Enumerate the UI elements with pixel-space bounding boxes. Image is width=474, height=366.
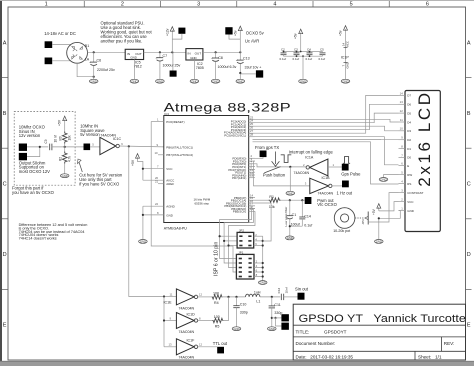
+5v arrow decoupling bank bbox=[300, 33, 302, 52]
pot wiper arrow bbox=[355, 217, 365, 219]
decoupling top bus bbox=[284, 51, 323, 53]
ground sym decoupling bbox=[299, 79, 308, 83]
svg-text:+5V: +5V bbox=[58, 119, 62, 126]
wire PC1 to LCD D5 bbox=[255, 113, 399, 123]
wire pad to +12v stem bbox=[172, 34, 182, 39]
svg-text:+12v: +12v bbox=[165, 28, 169, 36]
svg-text:A: A bbox=[467, 40, 471, 46]
svg-text:IN: IN bbox=[188, 51, 191, 55]
junction pushbutton gnd branch bbox=[289, 166, 291, 168]
svg-text:REV:: REV: bbox=[444, 341, 455, 346]
svg-text:PB5(SCK): PB5(SCK) bbox=[233, 210, 247, 214]
PB5 pin 19 bbox=[249, 210, 255, 212]
svg-text:you have an 5v OCXO: you have an 5v OCXO bbox=[12, 190, 55, 195]
wire AC1 to bridge bbox=[52, 45, 70, 46]
wire JP2 left pin3 bbox=[224, 240, 237, 242]
svg-text:14: 14 bbox=[400, 91, 404, 95]
svg-text:3: 3 bbox=[197, 2, 200, 8]
capacitor C8 1000uf 6.3v bbox=[215, 52, 217, 58]
connector pad square wave in bbox=[84, 144, 91, 151]
title block divider under big title bbox=[293, 324, 465, 326]
LCD module box bbox=[405, 91, 440, 232]
+5v arrow at pot bbox=[378, 207, 380, 211]
svg-text:13: 13 bbox=[400, 100, 404, 104]
svg-text:6: 6 bbox=[426, 2, 429, 8]
pin 7 VCC wire bbox=[143, 168, 164, 170]
window chrome bottom scrollbar bbox=[0, 361, 474, 366]
wire IC1D input bbox=[164, 320, 176, 322]
svg-text:10: 10 bbox=[155, 151, 159, 155]
junction C14 bbox=[301, 199, 303, 201]
svg-text:13: 13 bbox=[250, 174, 254, 178]
frame row tick B/C left bbox=[2, 147, 8, 149]
connector pad 1 Hz out bbox=[342, 181, 349, 188]
wire pushbutton to gnd bbox=[289, 167, 291, 191]
inductor L1 1uH bbox=[246, 294, 260, 297]
frame column tick 1/2 bbox=[83, 1, 85, 7]
svg-text:+5V: +5V bbox=[131, 159, 135, 166]
frame row tick D/E left bbox=[2, 288, 8, 290]
wire bridge plus to rail bbox=[88, 51, 126, 53]
connector pad Uc AVR bbox=[225, 27, 232, 34]
svg-text:PB6(XTAL1/TOSC1): PB6(XTAL1/TOSC1) bbox=[166, 146, 193, 150]
wire aux to LCD D2 bbox=[253, 139, 399, 141]
svg-text:74AC04N: 74AC04N bbox=[179, 356, 195, 360]
PB3 pin 17 bbox=[249, 205, 255, 207]
frame column tick 4/5 bbox=[312, 1, 314, 7]
capacitor C1 100uf bbox=[289, 200, 291, 216]
svg-text:74AC04N: 74AC04N bbox=[294, 171, 310, 175]
capacitor C12 10nf series bbox=[281, 294, 283, 300]
svg-text:D: D bbox=[3, 252, 7, 258]
potentiometer 10-20k bbox=[334, 208, 355, 229]
PC1 pin 24 bbox=[249, 122, 255, 124]
svg-text:RS: RS bbox=[407, 182, 411, 186]
LCD pin 14 stub bbox=[399, 94, 406, 96]
wire LCD GND down bbox=[379, 211, 401, 240]
junction C6 bottom bbox=[93, 76, 95, 78]
svg-text:D2: D2 bbox=[407, 138, 411, 142]
connector pad +12v bbox=[178, 28, 185, 34]
svg-text:GND: GND bbox=[287, 191, 293, 195]
svg-text:GND: GND bbox=[300, 79, 306, 83]
connector pad Sin out bbox=[298, 293, 305, 300]
svg-text:Document Number:: Document Number: bbox=[296, 341, 336, 346]
pin 21 AREF stub bbox=[158, 183, 164, 185]
svg-text:2200uf 25v: 2200uf 25v bbox=[97, 68, 115, 72]
junction C8 bbox=[215, 51, 217, 53]
wire IC1C out to xtal1 bbox=[119, 145, 163, 148]
connector pad AC input 2 bbox=[45, 58, 53, 65]
svg-text:IC1E: IC1E bbox=[164, 301, 173, 305]
wire decoupling gnd bbox=[302, 56, 304, 79]
connector pad from gps tx bbox=[260, 151, 267, 158]
wire PC0 to LCD D4 bbox=[255, 119, 399, 122]
capacitor C4 0.1uf bbox=[307, 53, 313, 55]
falling edge glyph bbox=[281, 155, 292, 163]
capacitor C13 33uf 10v bbox=[239, 52, 241, 60]
junction C10 bbox=[235, 296, 237, 298]
svg-text:E: E bbox=[3, 323, 7, 329]
junction C7 bbox=[159, 51, 161, 53]
svg-text:C10: C10 bbox=[240, 303, 247, 307]
push button bbox=[264, 167, 280, 173]
svg-text:10k: 10k bbox=[269, 205, 275, 209]
svg-text:10-20k pot: 10-20k pot bbox=[333, 229, 350, 233]
ISP header JP1 bbox=[236, 254, 254, 279]
svg-text:11: 11 bbox=[400, 118, 403, 122]
svg-text:GND: GND bbox=[380, 177, 386, 181]
svg-text:12: 12 bbox=[199, 343, 203, 347]
svg-text:100: 100 bbox=[214, 315, 220, 319]
ground sym C13 bbox=[236, 79, 245, 83]
svg-text:R4: R4 bbox=[214, 301, 219, 305]
svg-text:C8: C8 bbox=[218, 56, 223, 60]
svg-text:4.7k: 4.7k bbox=[67, 156, 71, 162]
junction IC1C out bbox=[128, 145, 130, 147]
ground sym C7 bbox=[156, 79, 165, 83]
svg-text:+5v: +5v bbox=[294, 33, 298, 39]
wire PC4 to LCD D7 bbox=[255, 95, 399, 133]
title block Sheet divider bbox=[414, 351, 416, 360]
svg-text:E: E bbox=[407, 164, 409, 168]
wire bridge minus down bbox=[77, 63, 94, 76]
svg-text:GND: GND bbox=[342, 79, 348, 83]
connector pad AC input 1 bbox=[45, 41, 53, 48]
svg-text:1000uf 25v: 1000uf 25v bbox=[163, 64, 181, 68]
junction +5v bbox=[239, 51, 241, 53]
wire PB2 to JP right rail bbox=[255, 203, 271, 241]
wire IC1B out to 1hz pad bbox=[332, 185, 342, 187]
svg-text:C14: C14 bbox=[304, 215, 311, 219]
wire LCD VCC to +5v bbox=[379, 202, 399, 211]
svg-text:65536 step: 65536 step bbox=[195, 202, 210, 206]
wire JP2 left pin1 bbox=[220, 235, 238, 237]
svg-text:C11: C11 bbox=[274, 303, 280, 307]
PD5 pin 11 bbox=[249, 171, 255, 173]
pin 8 GND wire bbox=[143, 214, 164, 216]
wire IC1E out to R4 bbox=[198, 296, 212, 298]
ISP right rail bbox=[262, 236, 264, 280]
wire PB5 route to ISP bbox=[229, 211, 256, 267]
svg-text:GND: GND bbox=[213, 79, 219, 83]
svg-text:R1: R1 bbox=[269, 195, 274, 199]
resistor R4 100 bbox=[212, 295, 223, 299]
ground sym pushbutton bbox=[286, 191, 295, 195]
wire IC1D out to R5 bbox=[198, 320, 213, 322]
svg-text:IC1A: IC1A bbox=[305, 156, 314, 160]
junction pot gnd bbox=[378, 217, 380, 219]
wire 7805 out to +5v bbox=[203, 51, 240, 53]
frame column tick 3/4 bbox=[236, 1, 238, 7]
junction JP2 pin3 bbox=[223, 240, 225, 242]
svg-text:28: 28 bbox=[250, 133, 254, 137]
svg-text:D1: D1 bbox=[407, 147, 411, 151]
LCD pin 2 stub bbox=[399, 201, 406, 203]
svg-text:E: E bbox=[467, 323, 471, 329]
wire C12 to sin out pad bbox=[284, 296, 298, 298]
svg-text:L1: L1 bbox=[256, 299, 260, 303]
frame column tick 5/6 bbox=[388, 1, 390, 7]
svg-text:12: 12 bbox=[400, 109, 404, 113]
wire pad to IC1C bbox=[90, 146, 100, 148]
frame row tick B/C right bbox=[466, 147, 472, 149]
wire OCXO pad1 to C9 bbox=[27, 146, 48, 148]
PD1 pin 3 bbox=[249, 160, 255, 162]
svg-text:B1: B1 bbox=[85, 44, 89, 48]
svg-text:VCC: VCC bbox=[346, 41, 350, 47]
svg-text:33uf 10v +: 33uf 10v + bbox=[245, 65, 262, 69]
wire PC5 to LCD E bbox=[255, 137, 399, 165]
junction JP2 pin1 bbox=[219, 235, 221, 237]
svg-text:2: 2 bbox=[121, 2, 124, 8]
svg-text:4: 4 bbox=[273, 2, 276, 8]
svg-text:PD7(AIN1): PD7(AIN1) bbox=[232, 176, 246, 180]
wire R4 to node bbox=[221, 296, 245, 298]
svg-text:14-18v AC or DC: 14-18v AC or DC bbox=[44, 31, 76, 36]
wire PB3 route to ISP bbox=[220, 206, 255, 259]
svg-text:21: 21 bbox=[155, 180, 159, 184]
svg-text:C: C bbox=[467, 182, 471, 188]
ground sym C10 bbox=[232, 327, 241, 331]
connector pad OCXO out 2 bbox=[19, 153, 27, 160]
wire AC2 to bridge bbox=[52, 59, 70, 62]
svg-text:GND: GND bbox=[91, 79, 97, 83]
svg-text:C12: C12 bbox=[277, 287, 281, 293]
svg-text:GND: GND bbox=[190, 56, 196, 60]
svg-text:10: 10 bbox=[400, 127, 404, 131]
svg-text:D6: D6 bbox=[407, 103, 411, 107]
LCD pin 1 stub bbox=[399, 210, 406, 212]
svg-text:C5: C5 bbox=[320, 47, 324, 51]
window chrome left strip bbox=[0, 0, 2, 366]
wire to aux pad 1 bbox=[272, 317, 282, 319]
svg-text:GND: GND bbox=[233, 327, 239, 331]
junction C13 bottom bbox=[239, 72, 241, 74]
svg-text:GPSDO YT Yannick Turcotte: GPSDO YT Yannick Turcotte bbox=[298, 311, 466, 324]
svg-text:TITLE:: TITLE: bbox=[296, 329, 310, 334]
svg-text:PB7(XTAL2/TOSC2): PB7(XTAL2/TOSC2) bbox=[166, 153, 193, 157]
pin 10 XTAL2 stub bbox=[158, 154, 164, 156]
connector pad aux 2 bbox=[281, 323, 289, 330]
svg-text:12v version: 12v version bbox=[19, 133, 41, 138]
connector pad aux 1 bbox=[281, 314, 289, 321]
ground sym pot bbox=[375, 240, 384, 244]
connector pad OCXO out 1 bbox=[19, 144, 27, 151]
+12v supply arrow bbox=[171, 30, 173, 52]
JP1 right stubs to gnd rail bbox=[254, 262, 263, 264]
svg-text:1uH: 1uH bbox=[254, 291, 261, 295]
junction C6 top bbox=[93, 51, 95, 53]
svg-text:Push button: Push button bbox=[263, 173, 286, 178]
svg-text:74AC04N: 74AC04N bbox=[179, 330, 195, 334]
PD2 pin 4 bbox=[249, 163, 255, 165]
svg-text:Vfc OCXO: Vfc OCXO bbox=[317, 202, 337, 207]
svg-text:330p: 330p bbox=[274, 311, 282, 315]
LCD pin 7 stub bbox=[399, 156, 406, 158]
wire to aux pad 2 bbox=[276, 318, 282, 326]
wire pad to C13 bottom bbox=[240, 73, 256, 75]
pin 20 AVCC wire bbox=[143, 179, 164, 181]
wire LCD CONTRAST to pot wiper bbox=[370, 193, 399, 222]
LCD pin 4 stub bbox=[399, 183, 406, 185]
ground sym filter bbox=[286, 236, 295, 240]
wire reset down to ISP bbox=[151, 122, 233, 247]
svg-text:GND: GND bbox=[140, 239, 146, 243]
svg-text:AGND: AGND bbox=[166, 205, 175, 209]
resistor R2 4.7k bbox=[62, 152, 67, 164]
LCD pin 11 stub bbox=[399, 121, 406, 123]
resistor R5 100 bbox=[213, 318, 224, 322]
svg-text:another psu if you like.: another psu if you like. bbox=[101, 38, 143, 43]
svg-text:Atmega 88,328P: Atmega 88,328P bbox=[164, 101, 292, 114]
wire lower pad to rail bbox=[172, 52, 174, 70]
JP2 right stubs bbox=[254, 235, 263, 237]
junction IC1D bbox=[163, 319, 165, 321]
wire L1 to C12 bbox=[260, 296, 280, 298]
svg-text:2x16 LCD: 2x16 LCD bbox=[415, 90, 434, 186]
svg-text:12: 12 bbox=[199, 293, 203, 297]
wire gps pulse pad to IC1A input bbox=[328, 166, 342, 168]
decoupling bottom bus bbox=[284, 55, 323, 57]
LCD pin 10 stub bbox=[399, 130, 406, 132]
inverter IC1D 74AC04N bbox=[176, 313, 194, 329]
PC2 pin 25 bbox=[249, 125, 255, 127]
bridge rectifier B1 bbox=[67, 42, 88, 63]
frame row tick C/D right bbox=[466, 218, 472, 220]
wire PB1 to R1 bbox=[255, 199, 269, 201]
voltage regulator IC2 7805 bbox=[186, 49, 203, 60]
PD4 pin 6 bbox=[249, 168, 255, 170]
svg-text:JP3: JP3 bbox=[361, 219, 365, 225]
svg-text:Uc AVR: Uc AVR bbox=[245, 39, 259, 44]
capacitor C9 10nf series bbox=[50, 144, 52, 151]
svg-text:C7: C7 bbox=[163, 54, 168, 58]
svg-text:1000uf 6.3v: 1000uf 6.3v bbox=[218, 65, 237, 69]
IC1P power pins bbox=[345, 29, 347, 79]
svg-text:IC1B: IC1B bbox=[322, 176, 331, 180]
wire pad to +5v stem bbox=[229, 35, 240, 40]
svg-text:GND: GND bbox=[191, 79, 197, 83]
svg-text:if you have 5V OCXO: if you have 5V OCXO bbox=[79, 181, 120, 186]
PB0 pin 14 bbox=[249, 197, 255, 199]
wire 7812 out to 7805 bbox=[144, 51, 186, 53]
svg-text:10nf: 10nf bbox=[284, 287, 288, 293]
svg-text:Sheet: 1/1: Sheet: 1/1 bbox=[418, 354, 442, 359]
junction dots decoupling bbox=[283, 51, 285, 53]
PB2 pin 16 bbox=[249, 202, 255, 204]
wire LCD RW to gnd hook bbox=[384, 175, 399, 178]
wire 7805 gnd bbox=[193, 60, 195, 79]
junction pad2 bbox=[39, 146, 41, 148]
svg-text:11: 11 bbox=[170, 292, 173, 296]
svg-text:10k: 10k bbox=[67, 135, 71, 141]
wire 7812 gnd bbox=[133, 60, 135, 80]
wire PD2 to IC1A input bbox=[255, 164, 306, 167]
junction C11 bbox=[271, 296, 273, 298]
wire gps tx pad to PD0 bbox=[255, 157, 263, 158]
svg-text:1: 1 bbox=[45, 2, 48, 8]
LCD pin 6 stub bbox=[399, 165, 406, 167]
inverter IC1A 74AC04N pointing left bbox=[310, 159, 328, 176]
capacitor C14 0.1uf bbox=[301, 200, 303, 217]
svg-text:GND: GND bbox=[287, 236, 293, 240]
svg-text:13: 13 bbox=[169, 343, 173, 347]
svg-text:GND: GND bbox=[407, 209, 414, 213]
svg-text:0.1uf: 0.1uf bbox=[280, 57, 287, 61]
+5v trunk VCC/AVCC bbox=[138, 157, 143, 180]
wire aux to LCD RS bbox=[253, 142, 399, 184]
svg-text:ATMEGA8-PU: ATMEGA8-PU bbox=[164, 226, 188, 230]
frame column tick 2/3 bbox=[160, 1, 162, 7]
svg-text:GND: GND bbox=[376, 239, 382, 243]
svg-text:TTL out: TTL out bbox=[213, 341, 228, 346]
ground sym IC3 bbox=[139, 240, 148, 244]
ground sym C6 bbox=[89, 79, 98, 83]
svg-text:VCC: VCC bbox=[407, 200, 414, 204]
svg-text:OUT: OUT bbox=[195, 51, 202, 55]
svg-text:IC3: IC3 bbox=[164, 112, 169, 116]
svg-text:C6: C6 bbox=[97, 59, 102, 63]
svg-text:GND: GND bbox=[130, 56, 136, 60]
svg-text:D0: D0 bbox=[407, 156, 411, 160]
junction JP1 gnd pins bbox=[262, 262, 264, 264]
PD3 pin 5 bbox=[249, 166, 255, 168]
svg-text:IC1D: IC1D bbox=[187, 312, 196, 316]
junction +12v rail bbox=[171, 51, 173, 53]
microcontroller IC3 box bbox=[164, 116, 249, 223]
svg-text:+5v: +5v bbox=[339, 30, 343, 36]
junction IC1E bbox=[163, 295, 165, 297]
wire JP2 left pin5 bbox=[229, 245, 238, 247]
svg-text:GPSDOYT: GPSDOYT bbox=[324, 329, 347, 334]
wire trunk junction to IC1E input bbox=[164, 296, 176, 298]
svg-text:+5V: +5V bbox=[372, 208, 376, 215]
svg-text:C1: C1 bbox=[292, 213, 297, 217]
svg-text:RW: RW bbox=[407, 173, 412, 177]
ground sym 7812 bbox=[130, 79, 139, 83]
svg-text:C: C bbox=[3, 182, 7, 188]
connector pad 12v out lower bbox=[170, 71, 177, 77]
capacitor C5 0.1uf bbox=[320, 53, 326, 55]
capacitor C2 0.1uf bbox=[281, 53, 287, 55]
title block divider above date row bbox=[293, 350, 465, 352]
svg-text:GND: GND bbox=[157, 79, 163, 83]
PD6 pin 12 bbox=[249, 174, 255, 176]
svg-text:C9: C9 bbox=[44, 139, 48, 143]
ground sym JP1 bbox=[258, 281, 267, 285]
inverter bus down bbox=[163, 297, 165, 347]
inverter IC1E 74AC04N bbox=[176, 289, 194, 305]
svg-text:5v Version: 5v Version bbox=[80, 132, 100, 137]
svg-text:5: 5 bbox=[350, 2, 353, 8]
ground sym 7805 bbox=[190, 79, 199, 83]
junction gnd trunk bbox=[142, 214, 144, 216]
svg-text:D: D bbox=[467, 252, 471, 258]
LCD pin 9 stub bbox=[399, 139, 406, 141]
svg-text:IC1C: IC1C bbox=[113, 137, 122, 141]
junction reset JP2 bbox=[232, 245, 234, 247]
capacitor C3 0.1uf bbox=[294, 53, 300, 55]
pin 22 AGND wire bbox=[143, 205, 164, 207]
LCD pin 13 stub bbox=[399, 103, 406, 105]
LCD pin 3 stub bbox=[399, 192, 406, 194]
svg-text:B: B bbox=[3, 111, 7, 117]
wire reset to JP1 bbox=[233, 246, 236, 272]
junction filter gnd bbox=[289, 225, 291, 227]
svg-text:JP1: JP1 bbox=[238, 251, 243, 255]
PD0 pin 2 bbox=[249, 157, 255, 159]
